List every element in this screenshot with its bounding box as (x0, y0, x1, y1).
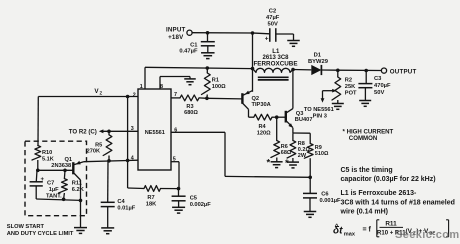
resistor R9 510ohm (304, 144, 329, 178)
svg-text:PIN 3: PIN 3 (313, 113, 327, 119)
svg-text:R9: R9 (315, 145, 322, 151)
ground for C2 (287, 41, 300, 47)
svg-text:OUTPUT: OUTPUT (390, 69, 417, 76)
caption slow start and duty cycle limit (7, 224, 74, 237)
svg-text:680Ω: 680Ω (184, 110, 198, 116)
svg-text:C2: C2 (269, 9, 276, 15)
potentiometer R2 25K (321, 70, 357, 103)
svg-text:25K: 25K (345, 84, 356, 90)
pin 8 label (160, 84, 163, 90)
svg-text:Seekic.com: Seekic.com (395, 229, 460, 241)
svg-text:+18V: +18V (168, 34, 184, 41)
formula duty cycle delta-t max (333, 220, 449, 238)
diode D1 BYW29 (293, 53, 338, 76)
note L1 description text (340, 190, 455, 216)
capacitor C1 0.47uF (179, 33, 214, 55)
svg-text:capacitor (0.03µF for 22 kHz): capacitor (0.03µF for 22 kHz) (341, 176, 436, 183)
svg-text:C5 is the timing: C5 is the timing (341, 167, 393, 174)
wire output line (338, 69, 382, 71)
capacitor C4 0.01uF (101, 161, 136, 228)
wire Q1 collector down (80, 180, 82, 227)
svg-text:FERROXCUBE: FERROXCUBE (253, 60, 297, 67)
label to NE5561 pin 3 (304, 107, 334, 120)
wire Q3 emitter to R8 and R9 branch (293, 133, 310, 144)
ground below R8 starred (285, 158, 299, 169)
note C5 timing text (341, 167, 436, 183)
svg-text:6.2K: 6.2K (72, 187, 85, 193)
resistor R4 120ohm (254, 114, 286, 136)
resistor R1 100ohm (202, 68, 227, 98)
svg-text:max: max (344, 231, 356, 237)
svg-text:*: * (266, 157, 270, 168)
node input/C1 junction (206, 31, 210, 35)
wire pin1 Vcc rail (145, 67, 253, 89)
wire pin 6 to current sense node (171, 132, 310, 177)
capacitor C5 0.002uF (172, 189, 212, 208)
pin 3 label (131, 126, 134, 132)
wire input rail (192, 33, 269, 34)
resistor R5 270K (87, 131, 112, 161)
node R9/C6/sense junction (308, 176, 312, 180)
node R1 top junction (206, 66, 210, 70)
svg-text:L1 is Ferroxcube 2613-: L1 is Ferroxcube 2613- (341, 190, 418, 197)
resistor R3 680ohm on pin 7 (171, 95, 207, 116)
svg-text:2N3638: 2N3638 (51, 163, 71, 169)
node R5/C4 junction (107, 159, 111, 163)
node C3 top junction (364, 69, 368, 73)
capacitor C7 1uF tantalum (30, 170, 63, 199)
wire pin 8 to ground (160, 77, 190, 90)
svg-text:2: 2 (133, 92, 136, 98)
transistor Q1 2N3638 PNP (51, 157, 84, 180)
pin 7 label (174, 92, 177, 98)
node pin2 junction (126, 95, 130, 99)
wire Vz line to pin 2 (38, 96, 138, 98)
svg-text:1: 1 (140, 84, 143, 90)
svg-text:D1: D1 (314, 53, 322, 59)
ground below R6 starred (266, 157, 282, 168)
svg-text:BYW29: BYW29 (308, 59, 329, 65)
svg-text:R5: R5 (95, 142, 102, 148)
svg-text:120Ω: 120Ω (257, 130, 271, 136)
node Vcc rail / L1 junction (251, 67, 255, 71)
svg-text:INPUT: INPUT (166, 27, 186, 34)
svg-text:BU407: BU407 (295, 117, 313, 123)
wire C7/R11/collector common bottom (36, 199, 80, 200)
node pin3/R5 junction (107, 130, 111, 134)
svg-text:C3: C3 (374, 76, 382, 82)
svg-text:50V: 50V (268, 21, 278, 27)
resistor R8 0.2ohm 2W (287, 141, 310, 162)
svg-text:= f: = f (363, 226, 372, 233)
svg-text:R7: R7 (147, 195, 154, 201)
node R1/R3/Q2-base junction (205, 97, 209, 101)
svg-text:+: + (41, 177, 45, 183)
svg-text:TANT.: TANT. (46, 193, 62, 199)
node input/L1 junction (251, 31, 255, 35)
transistor Q2 TIP30A PNP (242, 91, 270, 118)
svg-text:270K: 270K (87, 149, 100, 155)
capacitor C3 470uF 50V (358, 71, 391, 101)
output terminal (381, 68, 416, 76)
svg-text:R2: R2 (345, 78, 352, 84)
svg-text:*: * (285, 158, 289, 169)
svg-text:470µF: 470µF (374, 83, 391, 89)
label TO R2 (C) (69, 128, 97, 135)
wire to Q2 base (207, 97, 242, 100)
inductor L1 2613 3C8 Ferroxcube (253, 49, 298, 80)
pin 6 label (174, 127, 177, 133)
svg-text:C6: C6 (321, 192, 328, 198)
ground below C6 (304, 212, 317, 218)
svg-text:R11: R11 (72, 180, 82, 186)
svg-text:0.002µF: 0.002µF (190, 202, 212, 208)
svg-text:TO NE5561: TO NE5561 (304, 107, 334, 113)
resistor R7 18K (128, 186, 179, 208)
wire pin 3 line with arrow to R2 wiper (99, 129, 138, 133)
svg-text:47µF: 47µF (266, 15, 280, 21)
svg-text:TO R2 (C): TO R2 (C) (69, 128, 97, 135)
wire Vz down to R10 (37, 97, 39, 146)
transistor Q3 BU407 NPN (286, 109, 313, 134)
svg-text:wire (0.14 mH): wire (0.14 mH) (340, 209, 388, 216)
ground below C5 (172, 207, 185, 213)
wire pin 5 to timing junction (171, 162, 179, 189)
svg-text:C1: C1 (190, 42, 198, 48)
wire pin 4 line (84, 160, 138, 162)
input terminal +18V (166, 27, 192, 42)
svg-text:NE5561: NE5561 (145, 130, 165, 136)
svg-text:+: + (265, 35, 269, 42)
capacitor C6 0.001uF (303, 177, 341, 211)
svg-text:C4: C4 (117, 199, 125, 205)
note high current common (343, 128, 394, 142)
wire Q1 base line (38, 169, 73, 171)
resistor R11 6.2K (59, 170, 85, 199)
node R10/C7/Q1-base junction (36, 169, 40, 173)
svg-text:C5: C5 (190, 195, 197, 201)
svg-text:R11: R11 (385, 221, 397, 228)
node L1/D1/Q3 junction (291, 68, 295, 72)
label Vz (94, 88, 102, 96)
wire +18V vertical to L1 and Q2 emitter (252, 33, 254, 92)
ground below R2 (332, 104, 344, 110)
svg-text:18K: 18K (146, 201, 157, 207)
svg-text:0.47µF: 0.47µF (179, 49, 198, 55)
node R4/R6/Q3-base junction (275, 115, 279, 119)
svg-text:510Ω: 510Ω (315, 151, 329, 157)
pin 4 label (131, 156, 134, 162)
pin 2 label (133, 92, 136, 98)
svg-text:SLOW START: SLOW START (7, 224, 45, 230)
svg-text:^: ^ (335, 222, 339, 230)
svg-text:TIP30A: TIP30A (252, 102, 271, 108)
svg-text:5.1K: 5.1K (42, 157, 54, 163)
op-amp U1 NE5561 control IC (138, 89, 171, 170)
pin 5 label (173, 156, 176, 162)
resistor R6 68ohm 2W (271, 117, 292, 161)
svg-text:R4: R4 (259, 124, 267, 130)
svg-text:3C8 with 14 turns of #18 ename: 3C8 with 14 turns of #18 enameled (341, 200, 455, 207)
svg-text:0.01µF: 0.01µF (117, 206, 135, 212)
svg-text:C7: C7 (47, 180, 54, 186)
svg-text:100Ω: 100Ω (212, 84, 226, 90)
wire pin2 junction down to timing node (127, 97, 129, 189)
ground at pin 8 (184, 79, 196, 85)
svg-text:COMMON: COMMON (349, 135, 377, 142)
node R11 top junction (63, 169, 67, 173)
node collector/bottom-wire junction (79, 199, 83, 203)
svg-text:0.001µF: 0.001µF (320, 198, 342, 204)
svg-text:50V: 50V (374, 90, 384, 96)
svg-text:Z: Z (99, 90, 102, 95)
capacitor C2 47uF 50V (265, 9, 294, 43)
ground below C4 (101, 228, 114, 234)
ground below slow-start box (74, 228, 87, 234)
svg-text:R6: R6 (281, 144, 288, 150)
node R11 bottom junction (62, 198, 66, 202)
node R7/C5/pin5 junction (177, 187, 181, 191)
node pin4/vertical junction (126, 159, 130, 163)
svg-text:R1: R1 (212, 78, 219, 84)
svg-text:8: 8 (160, 84, 163, 90)
svg-text:POT: POT (345, 91, 357, 97)
wire Q3 collector to L1/D1 node (292, 69, 294, 108)
resistor R10 5.1K (32, 146, 54, 171)
dashed box slow start network (25, 141, 87, 216)
pin 1 label (140, 84, 143, 90)
watermark seekic.com (395, 229, 460, 241)
ground below C3 (359, 101, 371, 107)
svg-text:AND DUTY CYCLE LIMIT: AND DUTY CYCLE LIMIT (7, 231, 74, 237)
node R2 top junction (336, 69, 340, 73)
ground below C1 (201, 53, 215, 59)
svg-text:Q1: Q1 (65, 157, 73, 163)
svg-text:1µF: 1µF (49, 187, 59, 193)
svg-text:R10: R10 (42, 150, 52, 156)
